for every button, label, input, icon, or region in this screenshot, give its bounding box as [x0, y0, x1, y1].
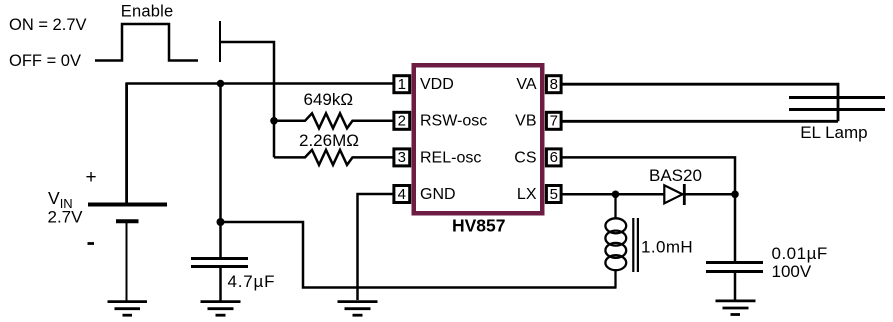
ground C1	[201, 302, 241, 316]
node VDD-battery junction	[217, 80, 225, 88]
battery minus plate	[116, 219, 139, 223]
svg-text:6: 6	[550, 149, 558, 166]
svg-text:LX: LX	[517, 186, 537, 203]
wire C1 to ground	[219, 267, 222, 301]
pin 3 box	[394, 149, 410, 166]
pin 1 box	[394, 76, 410, 93]
pin 7 box	[546, 112, 561, 129]
svg-text:HV857: HV857	[452, 215, 506, 235]
resistor R2 2.26M	[274, 150, 394, 165]
svg-text:CS: CS	[514, 149, 536, 166]
resistor R1 649k	[274, 113, 394, 128]
battery plus plate	[88, 203, 167, 207]
wire ground return from node to inductor bottom	[221, 222, 617, 288]
wire LX row	[562, 193, 736, 196]
svg-text:Enable: Enable	[121, 3, 174, 21]
svg-text:0.01µF: 0.01µF	[772, 244, 828, 263]
svg-text:3: 3	[398, 149, 406, 166]
svg-text:RSW-osc: RSW-osc	[420, 113, 487, 130]
svg-text:VDD: VDD	[420, 76, 454, 93]
wire C2 to ground	[734, 272, 737, 301]
pin 8 box	[546, 76, 561, 93]
ground GND pin	[338, 302, 378, 316]
wire GND pin to ground	[358, 194, 395, 300]
ground battery	[108, 302, 148, 316]
op-amp U1 HV857 body	[414, 65, 543, 213]
svg-text:ON = 2.7V: ON = 2.7V	[9, 16, 87, 34]
capacitor C2 0.01uF bottom plate	[706, 270, 763, 273]
pin 2 box	[394, 112, 410, 129]
svg-text:1.0mH: 1.0mH	[641, 237, 693, 256]
svg-text:GND: GND	[420, 186, 456, 203]
svg-text:+: +	[85, 167, 96, 188]
svg-text:4.7µF: 4.7µF	[228, 272, 276, 291]
capacitor C2 0.01uF top plate	[706, 261, 763, 264]
svg-text:2: 2	[398, 113, 406, 130]
pin 5 box	[546, 186, 561, 203]
battery V_IN positive lead	[125, 83, 128, 204]
node RSW junction	[270, 117, 278, 125]
svg-text:4: 4	[398, 186, 406, 203]
wire VA to lamp	[562, 84, 839, 121]
svg-text:1: 1	[398, 76, 406, 93]
wire CS feedback	[562, 157, 736, 194]
pin 6 box	[546, 149, 561, 166]
label minus	[88, 242, 95, 245]
inductor L1	[605, 194, 626, 287]
svg-text:OFF = 0V: OFF = 0V	[9, 52, 81, 70]
node bypass junction	[217, 218, 225, 226]
inductor core lines	[633, 218, 638, 272]
capacitor C1 4.7uF bottom plate	[191, 265, 248, 268]
svg-text:BAS20: BAS20	[649, 166, 702, 185]
svg-text:649kΩ: 649kΩ	[304, 90, 354, 109]
ground C2	[716, 301, 756, 315]
wire battery node down to bypass cap	[219, 84, 222, 258]
svg-text:REL-osc: REL-osc	[420, 149, 481, 166]
wire CS node down to C2	[734, 194, 737, 261]
svg-text:EL Lamp: EL Lamp	[800, 123, 867, 142]
wire switch to REL-osc column	[221, 42, 275, 157]
EL lamp plate bottom	[789, 108, 885, 111]
wire VDD rail	[126, 82, 394, 85]
node diode-CS junction	[731, 191, 739, 199]
svg-text:7: 7	[550, 113, 558, 130]
node LX-inductor junction	[612, 191, 620, 199]
wire VB to lamp	[562, 120, 839, 123]
capacitor C1 4.7uF top plate	[191, 257, 248, 260]
svg-text:100V: 100V	[772, 262, 812, 281]
diode D1 BAS20	[664, 184, 684, 205]
battery negative lead	[126, 223, 128, 301]
svg-text:VB: VB	[515, 113, 536, 130]
switch SW blade	[219, 21, 221, 62]
svg-text:5: 5	[550, 186, 558, 203]
svg-text:8: 8	[550, 76, 558, 93]
svg-text:2.7V: 2.7V	[48, 208, 84, 227]
pin 4 box	[394, 186, 410, 203]
svg-text:2.26MΩ: 2.26MΩ	[299, 131, 359, 150]
enable pulse waveform	[95, 24, 198, 61]
svg-text:VA: VA	[516, 76, 536, 93]
EL lamp plate top	[789, 96, 885, 99]
